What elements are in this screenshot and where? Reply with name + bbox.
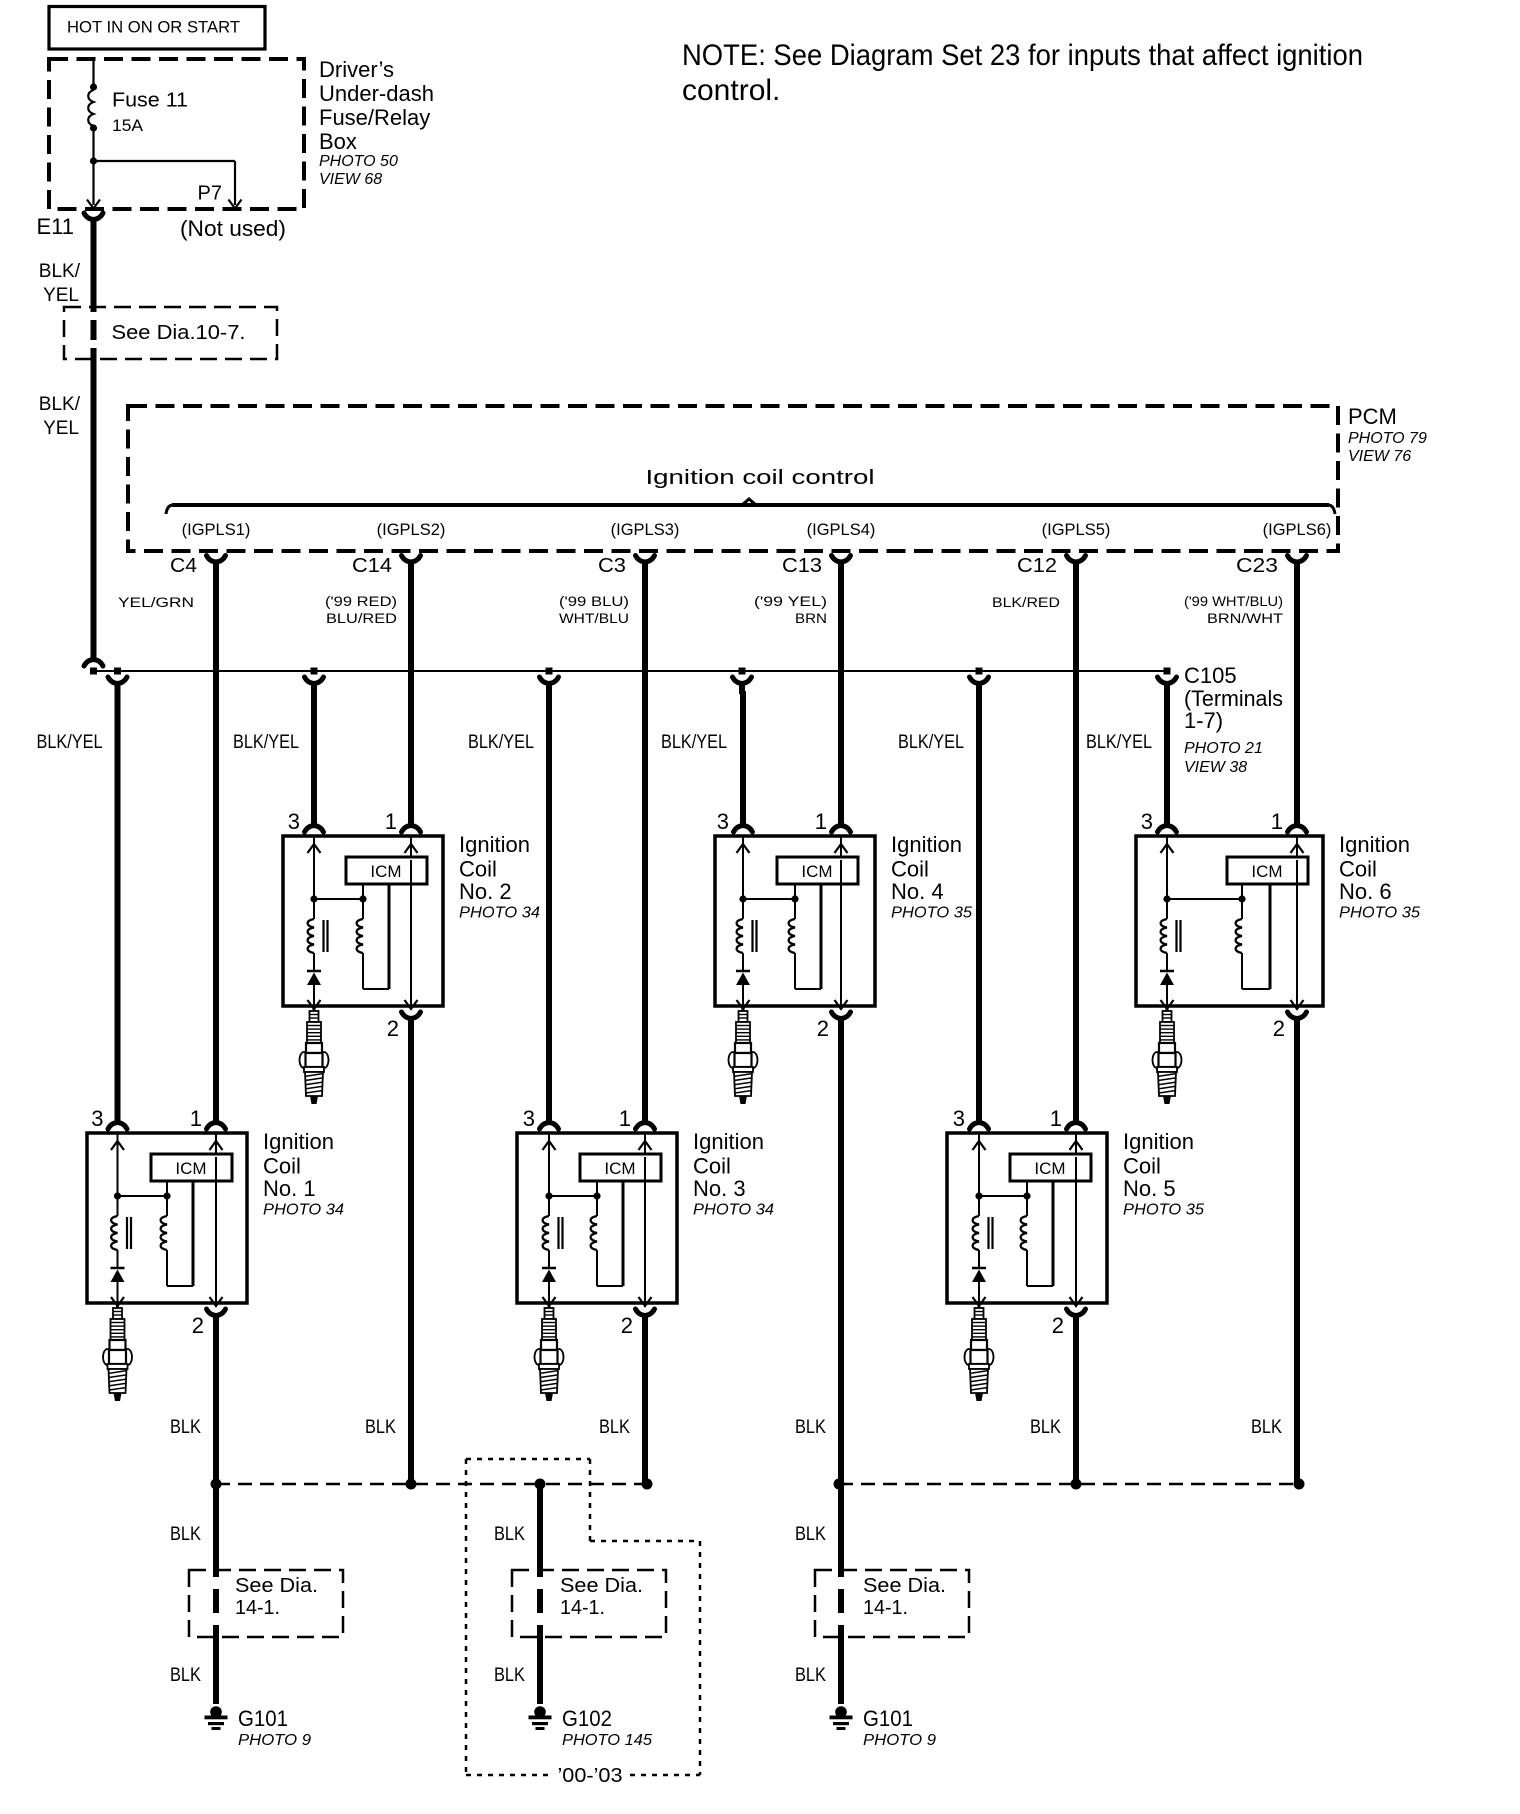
- svg-text:ICM: ICM: [175, 1159, 206, 1178]
- svg-text:15A: 15A: [112, 117, 143, 135]
- svg-text:See Dia.10-7.: See Dia.10-7.: [112, 322, 246, 344]
- svg-text:ICM: ICM: [801, 862, 832, 881]
- svg-text:BLK/: BLK/: [39, 394, 81, 415]
- svg-text:PHOTO 34: PHOTO 34: [693, 1202, 774, 1219]
- svg-text:BLK: BLK: [170, 1524, 201, 1545]
- svg-text:PHOTO 145: PHOTO 145: [562, 1732, 652, 1749]
- svg-text:BLK/YEL: BLK/YEL: [1086, 732, 1152, 753]
- svg-text:VIEW 38: VIEW 38: [1184, 759, 1247, 776]
- svg-text:’00-’03: ’00-’03: [558, 1765, 623, 1787]
- svg-text:(IGPLS5): (IGPLS5): [1042, 521, 1111, 539]
- svg-text:BLK/: BLK/: [39, 261, 81, 282]
- svg-text:C14: C14: [352, 555, 392, 577]
- svg-text:PHOTO 35: PHOTO 35: [891, 905, 972, 922]
- svg-text:1: 1: [815, 809, 827, 834]
- svg-text:P7: P7: [198, 183, 222, 205]
- svg-text:('99 RED): ('99 RED): [325, 594, 397, 609]
- svg-text:Coil: Coil: [1339, 857, 1377, 882]
- svg-text:No. 3: No. 3: [693, 1176, 746, 1201]
- svg-text:E11: E11: [36, 214, 74, 239]
- svg-text:PHOTO 79: PHOTO 79: [1348, 430, 1427, 447]
- svg-text:YEL: YEL: [43, 285, 79, 306]
- svg-text:(IGPLS6): (IGPLS6): [1263, 521, 1332, 539]
- svg-text:14-1.: 14-1.: [235, 1597, 280, 1619]
- svg-text:BLK/YEL: BLK/YEL: [898, 732, 964, 753]
- svg-text:No. 4: No. 4: [891, 879, 944, 904]
- svg-text:VIEW 76: VIEW 76: [1348, 448, 1411, 465]
- svg-text:No. 6: No. 6: [1339, 879, 1392, 904]
- svg-text:('99 YEL): ('99 YEL): [754, 594, 827, 609]
- svg-text:Fuse 11: Fuse 11: [112, 90, 188, 112]
- svg-text:BLK/YEL: BLK/YEL: [233, 732, 299, 753]
- svg-text:Ignition: Ignition: [263, 1129, 334, 1154]
- svg-text:2: 2: [192, 1313, 204, 1338]
- svg-text:14-1.: 14-1.: [560, 1597, 605, 1619]
- svg-text:3: 3: [523, 1106, 535, 1131]
- svg-text:No. 1: No. 1: [263, 1176, 316, 1201]
- svg-text:BLK: BLK: [795, 1417, 826, 1438]
- svg-text:BLK/RED: BLK/RED: [992, 595, 1060, 610]
- svg-text:PHOTO 9: PHOTO 9: [238, 1732, 311, 1749]
- svg-text:BLK/YEL: BLK/YEL: [468, 732, 534, 753]
- svg-text:PHOTO 35: PHOTO 35: [1339, 905, 1420, 922]
- svg-text:BLK: BLK: [795, 1524, 826, 1545]
- svg-text:3: 3: [288, 809, 300, 834]
- svg-text:('99 WHT/BLU): ('99 WHT/BLU): [1184, 594, 1283, 609]
- svg-text:NOTE: See Diagram Set 23 for i: NOTE: See Diagram Set 23 for inputs that…: [682, 39, 1363, 72]
- svg-text:(IGPLS4): (IGPLS4): [807, 521, 876, 539]
- svg-text:(IGPLS1): (IGPLS1): [182, 521, 251, 539]
- svg-text:C3: C3: [598, 555, 626, 577]
- svg-text:G101: G101: [863, 1706, 913, 1731]
- svg-text:Coil: Coil: [891, 857, 929, 882]
- svg-text:2: 2: [817, 1016, 829, 1041]
- svg-text:ICM: ICM: [604, 1159, 635, 1178]
- svg-text:control.: control.: [682, 74, 780, 107]
- svg-text:Coil: Coil: [459, 857, 497, 882]
- svg-text:PHOTO 35: PHOTO 35: [1123, 1202, 1204, 1219]
- svg-text:BLK: BLK: [795, 1665, 826, 1686]
- svg-text:2: 2: [387, 1016, 399, 1041]
- svg-text:(IGPLS3): (IGPLS3): [611, 521, 680, 539]
- svg-text:ICM: ICM: [1251, 862, 1282, 881]
- svg-text:BRN/WHT: BRN/WHT: [1207, 611, 1283, 626]
- svg-text:YEL/GRN: YEL/GRN: [118, 595, 194, 610]
- svg-text:BLK: BLK: [365, 1417, 396, 1438]
- svg-text:Ignition: Ignition: [1123, 1129, 1194, 1154]
- svg-text:YEL: YEL: [43, 418, 79, 439]
- svg-text:2: 2: [1273, 1016, 1285, 1041]
- svg-text:C23: C23: [1236, 555, 1278, 577]
- svg-text:14-1.: 14-1.: [863, 1597, 908, 1619]
- svg-text:ICM: ICM: [1034, 1159, 1065, 1178]
- svg-text:BLK: BLK: [494, 1665, 525, 1686]
- svg-text:Under-dash: Under-dash: [319, 81, 434, 106]
- svg-text:HOT IN ON OR START: HOT IN ON OR START: [67, 19, 240, 37]
- svg-text:WHT/BLU: WHT/BLU: [559, 611, 629, 626]
- svg-text:No. 2: No. 2: [459, 879, 512, 904]
- svg-text:(IGPLS2): (IGPLS2): [377, 521, 446, 539]
- svg-text:BLK: BLK: [494, 1524, 525, 1545]
- svg-text:Coil: Coil: [263, 1154, 301, 1179]
- svg-text:Ignition: Ignition: [693, 1129, 764, 1154]
- svg-text:G102: G102: [562, 1706, 612, 1731]
- svg-text:Ignition coil control: Ignition coil control: [646, 467, 875, 489]
- svg-text:3: 3: [91, 1106, 103, 1131]
- svg-text:2: 2: [1052, 1313, 1064, 1338]
- svg-text:ICM: ICM: [370, 862, 401, 881]
- svg-text:3: 3: [717, 809, 729, 834]
- svg-text:Coil: Coil: [1123, 1154, 1161, 1179]
- svg-text:See Dia.: See Dia.: [560, 1575, 643, 1597]
- svg-text:3: 3: [953, 1106, 965, 1131]
- svg-text:(Not used): (Not used): [180, 216, 286, 241]
- svg-text:BLK: BLK: [170, 1417, 201, 1438]
- svg-text:BLK: BLK: [170, 1665, 201, 1686]
- svg-text:PHOTO 9: PHOTO 9: [863, 1732, 936, 1749]
- svg-text:VIEW 68: VIEW 68: [319, 171, 382, 188]
- svg-text:PHOTO 21: PHOTO 21: [1184, 740, 1263, 757]
- svg-text:1-7): 1-7): [1184, 708, 1223, 733]
- svg-text:3: 3: [1141, 809, 1153, 834]
- svg-text:1: 1: [1271, 809, 1283, 834]
- svg-text:1: 1: [385, 809, 397, 834]
- svg-text:BLU/RED: BLU/RED: [326, 611, 397, 626]
- svg-text:G101: G101: [238, 1706, 288, 1731]
- svg-text:PHOTO 34: PHOTO 34: [263, 1202, 344, 1219]
- svg-text:('99 BLU): ('99 BLU): [559, 594, 629, 609]
- svg-text:PCM: PCM: [1348, 404, 1397, 429]
- svg-text:BRN: BRN: [795, 611, 827, 626]
- svg-text:C12: C12: [1017, 555, 1057, 577]
- svg-text:C4: C4: [170, 555, 197, 577]
- svg-text:BLK: BLK: [599, 1417, 630, 1438]
- svg-text:Driver’s: Driver’s: [319, 57, 394, 82]
- svg-text:C13: C13: [782, 555, 822, 577]
- svg-text:Ignition: Ignition: [1339, 832, 1410, 857]
- svg-text:PHOTO 34: PHOTO 34: [459, 905, 540, 922]
- svg-text:1: 1: [1050, 1106, 1062, 1131]
- svg-text:C105: C105: [1184, 663, 1237, 688]
- svg-text:BLK: BLK: [1030, 1417, 1061, 1438]
- svg-text:Fuse/Relay: Fuse/Relay: [319, 105, 430, 130]
- svg-text:Box: Box: [319, 129, 357, 154]
- svg-text:2: 2: [621, 1313, 633, 1338]
- svg-text:BLK: BLK: [1251, 1417, 1282, 1438]
- svg-text:Ignition: Ignition: [459, 832, 530, 857]
- svg-text:PHOTO 50: PHOTO 50: [319, 153, 398, 170]
- svg-text:BLK/YEL: BLK/YEL: [37, 732, 103, 753]
- svg-text:Coil: Coil: [693, 1154, 731, 1179]
- svg-text:See Dia.: See Dia.: [235, 1575, 318, 1597]
- svg-text:See Dia.: See Dia.: [863, 1575, 946, 1597]
- svg-text:1: 1: [619, 1106, 631, 1131]
- svg-text:No. 5: No. 5: [1123, 1176, 1176, 1201]
- svg-text:1: 1: [190, 1106, 202, 1131]
- svg-text:BLK/YEL: BLK/YEL: [661, 732, 727, 753]
- svg-text:Ignition: Ignition: [891, 832, 962, 857]
